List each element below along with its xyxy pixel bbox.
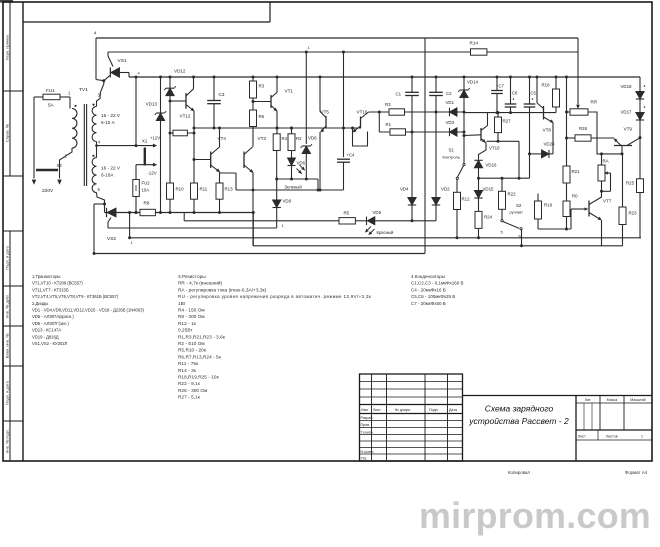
svg-text:VD18: VD18 xyxy=(621,84,633,89)
svg-text:R4 - 150 Ом: R4 - 150 Ом xyxy=(178,308,205,313)
svg-text:Дата: Дата xyxy=(449,408,457,412)
svg-text:VT11,VT7 - КТ315Б: VT11,VT7 - КТ315Б xyxy=(32,287,69,292)
svg-text:5А: 5А xyxy=(48,103,55,108)
svg-text:руч/авт: руч/авт xyxy=(510,210,524,215)
svg-text:Пров.: Пров. xyxy=(361,423,371,427)
svg-text:R12: R12 xyxy=(462,197,471,202)
svg-text:R2 - 510 Ом: R2 - 510 Ом xyxy=(178,341,205,346)
svg-text:R23: R23 xyxy=(629,211,638,216)
svg-text:R11: R11 xyxy=(200,187,208,192)
svg-text:+12V: +12V xyxy=(150,136,160,141)
svg-text:Утв.: Утв. xyxy=(361,457,368,461)
svg-text:Лист: Лист xyxy=(578,435,586,439)
svg-text:VD5: VD5 xyxy=(373,210,382,215)
svg-text:R3: R3 xyxy=(259,84,265,89)
svg-text:Разраб.: Разраб. xyxy=(361,416,374,420)
svg-text:R1: R1 xyxy=(386,122,392,127)
svg-text:mirprom.com: mirprom.com xyxy=(419,496,651,536)
svg-text:VT16: VT16 xyxy=(357,110,368,115)
svg-text:VD6: VD6 xyxy=(297,161,306,166)
svg-text:Перв. примен.: Перв. примен. xyxy=(5,34,10,61)
svg-text:Масса: Масса xyxy=(607,398,618,402)
svg-text:RA - регулировка тока (imax-6,: RA - регулировка тока (imax-6,3А/+3,3к) xyxy=(178,287,267,292)
svg-text:10А: 10А xyxy=(142,188,150,193)
svg-text:6-10А: 6-10А xyxy=(101,173,114,178)
svg-text:R19: R19 xyxy=(544,203,553,208)
svg-text:Справ. №: Справ. № xyxy=(5,124,10,142)
svg-text:С7 - 20мкФх50 В: С7 - 20мкФх50 В xyxy=(411,301,446,306)
svg-text:R24: R24 xyxy=(484,215,493,220)
svg-text:Инв. № дубл.: Инв. № дубл. xyxy=(5,294,10,319)
svg-text:R8: R8 xyxy=(144,201,150,206)
svg-text:Копировал: Копировал xyxy=(508,470,530,475)
svg-text:R26 - 300 Ом: R26 - 300 Ом xyxy=(178,388,207,393)
svg-text:Изм: Изм xyxy=(361,408,368,412)
svg-text:3.Резисторы: 3.Резисторы xyxy=(178,274,206,279)
svg-text:16 - 22 V: 16 - 22 V xyxy=(101,166,121,171)
svg-text:VD13 - КС147А: VD13 - КС147А xyxy=(32,328,61,333)
svg-text:X1: X1 xyxy=(142,139,148,144)
svg-text:VD8: VD8 xyxy=(308,136,317,141)
svg-text:R6,R7,R13,R24 - 5к: R6,R7,R13,R24 - 5к xyxy=(178,354,222,359)
svg-text:+C7: +C7 xyxy=(496,84,504,89)
svg-text:Схема зарядного: Схема зарядного xyxy=(485,404,554,414)
svg-text:C3: C3 xyxy=(219,92,225,97)
svg-text:VT4: VT4 xyxy=(218,136,227,141)
svg-text:2.Диоды: 2.Диоды xyxy=(32,301,48,306)
svg-text:R10: R10 xyxy=(176,187,185,192)
svg-text:X2: X2 xyxy=(57,163,63,168)
svg-text:RR: RR xyxy=(591,100,598,105)
svg-text:С1,С2,С3 - 0,1мкФх160 В: С1,С2,С3 - 0,1мкФх160 В xyxy=(411,281,464,286)
svg-text:16 - 22 V: 16 - 22 V xyxy=(101,113,121,118)
svg-text:VD16: VD16 xyxy=(486,163,498,168)
svg-text:R0: R0 xyxy=(572,194,578,199)
svg-text:R14: R14 xyxy=(470,41,479,46)
svg-text:4: 4 xyxy=(138,72,140,76)
svg-text:4.Конденсаторы: 4.Конденсаторы xyxy=(411,274,445,279)
svg-text:C5: C5 xyxy=(531,91,537,96)
svg-text:VD2: VD2 xyxy=(441,187,450,192)
svg-text:C6: C6 xyxy=(512,91,518,96)
svg-text:С4 - 20мкФх16 В: С4 - 20мкФх16 В xyxy=(411,287,446,292)
svg-text:R3: R3 xyxy=(385,102,391,107)
svg-text:R8 - 300 Ом: R8 - 300 Ом xyxy=(178,314,205,319)
svg-text:0,25Вт: 0,25Вт xyxy=(178,328,193,333)
svg-text:VD19 - Д816Д: VD19 - Д816Д xyxy=(32,334,59,339)
svg-text:Подп. и дата: Подп. и дата xyxy=(5,245,10,269)
svg-text:R1,R3,R21,R23 - 3,6к: R1,R3,R21,R23 - 3,6к xyxy=(178,334,226,339)
svg-text:R21: R21 xyxy=(572,169,581,174)
svg-text:R13: R13 xyxy=(225,187,234,192)
svg-text:S1: S1 xyxy=(449,148,455,153)
svg-text:R5: R5 xyxy=(344,211,350,216)
svg-text:FU2: FU2 xyxy=(142,181,151,186)
svg-text:Листов: Листов xyxy=(606,435,618,439)
svg-text:+C4: +C4 xyxy=(347,153,355,158)
svg-text:VD12: VD12 xyxy=(174,69,186,74)
svg-text:VT5: VT5 xyxy=(321,110,330,115)
svg-text:VD1: VD1 xyxy=(446,100,455,105)
svg-text:Т.контр.: Т.контр. xyxy=(361,431,374,435)
svg-text:Лист: Лист xyxy=(373,408,381,412)
svg-text:Контроль: Контроль xyxy=(443,155,460,160)
svg-text:VD14: VD14 xyxy=(467,80,479,85)
svg-text:TV1: TV1 xyxy=(79,87,88,93)
svg-text:R27: R27 xyxy=(503,119,512,124)
svg-text:VD17: VD17 xyxy=(621,110,633,115)
svg-text:Подп.: Подп. xyxy=(429,408,439,412)
svg-text:VT2,VT4,VT5,VT6,VT8,VT9 - КТ36: VT2,VT4,VT5,VT6,VT8,VT9 - КТ361Б (ВС557) xyxy=(32,294,119,299)
svg-text:-12V: -12V xyxy=(148,171,157,176)
svg-text:RU - регулировка уровня напряж: RU - регулировка уровня напряжения разря… xyxy=(178,294,371,299)
svg-text:VD15: VD15 xyxy=(483,187,495,192)
svg-text:VT7: VT7 xyxy=(603,199,612,204)
svg-text:Инв. № подл.: Инв. № подл. xyxy=(5,429,10,454)
svg-text:R5,R10 - 20к: R5,R10 - 20к xyxy=(178,348,207,353)
svg-text:№ докум.: № докум. xyxy=(395,408,411,412)
svg-text:R11 - 75к: R11 - 75к xyxy=(178,361,199,366)
svg-text:VD6 - АЛ307Г(зел.): VD6 - АЛ307Г(зел.) xyxy=(32,321,69,326)
svg-text:VD5 - АЛ307А(красн.): VD5 - АЛ307А(красн.) xyxy=(32,314,74,319)
svg-text:С5,С6 - 100мкФх25 В: С5,С6 - 100мкФх25 В xyxy=(411,294,455,299)
svg-text:RA: RA xyxy=(603,159,609,164)
svg-text:Лит.: Лит. xyxy=(585,398,592,402)
svg-text:C2: C2 xyxy=(446,91,452,96)
svg-text:R2: R2 xyxy=(296,136,302,141)
svg-text:Подп. и дата: Подп. и дата xyxy=(5,380,10,404)
svg-text:VS1,VS2 - КУ202Л: VS1,VS2 - КУ202Л xyxy=(32,341,68,346)
svg-text:1: 1 xyxy=(282,224,284,228)
svg-text:R22 - 9,1к: R22 - 9,1к xyxy=(178,381,201,386)
svg-text:устройства Рассвет - 2: устройства Рассвет - 2 xyxy=(468,416,569,426)
svg-text:S2: S2 xyxy=(516,203,522,208)
svg-text:VD3: VD3 xyxy=(446,120,455,125)
svg-text:VD13: VD13 xyxy=(146,102,158,107)
svg-text:6-10 А: 6-10 А xyxy=(101,120,116,125)
svg-text:C1: C1 xyxy=(396,92,402,97)
svg-text:VT12: VT12 xyxy=(180,114,191,119)
svg-text:1Вт: 1Вт xyxy=(178,301,187,306)
svg-text:VS1: VS1 xyxy=(118,58,127,64)
svg-text:VT8: VT8 xyxy=(543,128,552,133)
svg-text:R12 - 1к: R12 - 1к xyxy=(178,321,197,326)
svg-text:VT9: VT9 xyxy=(624,127,633,132)
svg-text:FU1: FU1 xyxy=(46,88,55,93)
svg-text:220V: 220V xyxy=(42,188,54,194)
svg-text:Взам. инв. №: Взам. инв. № xyxy=(5,334,10,359)
svg-text:Масштаб: Масштаб xyxy=(630,398,645,402)
svg-text:R18: R18 xyxy=(542,83,551,88)
svg-text:VT3: VT3 xyxy=(258,136,267,141)
svg-text:R6: R6 xyxy=(259,114,265,119)
svg-text:Формат А4: Формат А4 xyxy=(625,470,648,475)
svg-text:VT10: VT10 xyxy=(489,146,500,151)
svg-text:VD4: VD4 xyxy=(400,187,409,192)
svg-text:R22: R22 xyxy=(508,192,517,197)
svg-text:VS2: VS2 xyxy=(107,236,116,242)
svg-text:R25: R25 xyxy=(626,181,635,186)
svg-text:R26: R26 xyxy=(579,126,588,131)
svg-text:R27 - 5,1к: R27 - 5,1к xyxy=(178,395,201,400)
svg-text:1: 1 xyxy=(641,435,643,439)
svg-text:VD1 - VD4,VD8,VD11,VD12,VD15 -: VD1 - VD4,VD8,VD11,VD12,VD15 - VD18 - Д2… xyxy=(32,308,144,313)
svg-text:R4: R4 xyxy=(282,136,288,141)
svg-text:RR - 4,7к (внешний): RR - 4,7к (внешний) xyxy=(178,280,223,286)
svg-text:Зеленый: Зеленый xyxy=(285,185,303,190)
svg-text:VT1,VT10 - КТ209 (ВС557): VT1,VT10 - КТ209 (ВС557) xyxy=(32,281,83,286)
svg-text:1: 1 xyxy=(131,241,133,245)
svg-text:R18,R19,R25 - 10к: R18,R19,R25 - 10к xyxy=(178,375,220,380)
svg-text:Н.контр.: Н.контр. xyxy=(361,450,375,454)
svg-text:R14 - 3к: R14 - 3к xyxy=(178,368,197,373)
svg-text:1.Транзисторы: 1.Транзисторы xyxy=(32,274,60,279)
svg-text:VT1: VT1 xyxy=(285,89,294,94)
svg-text:VD9: VD9 xyxy=(283,199,292,204)
svg-text:Красный: Красный xyxy=(377,230,395,235)
